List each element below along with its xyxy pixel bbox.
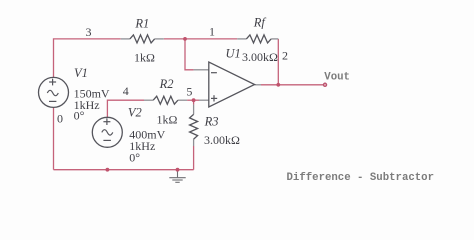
svg-text:R2: R2 (159, 77, 174, 91)
svg-text:3.00kΩ: 3.00kΩ (204, 133, 240, 147)
svg-text:1kΩ: 1kΩ (157, 113, 178, 127)
svg-text:R1: R1 (134, 17, 149, 31)
svg-text:3: 3 (86, 25, 92, 39)
svg-text:Difference - Subtractor: Difference - Subtractor (287, 172, 435, 184)
svg-text:2: 2 (282, 49, 288, 63)
svg-text:R3: R3 (204, 115, 219, 129)
svg-text:Rf: Rf (253, 16, 267, 30)
svg-text:0°: 0° (74, 109, 85, 123)
svg-text:0: 0 (57, 112, 63, 126)
svg-text:1kΩ: 1kΩ (134, 51, 155, 65)
svg-text:Vout: Vout (324, 71, 350, 83)
svg-text:1: 1 (209, 25, 215, 39)
svg-text:5: 5 (186, 85, 192, 99)
svg-text:V2: V2 (128, 106, 142, 120)
svg-text:0°: 0° (129, 150, 140, 164)
svg-text:U1: U1 (226, 47, 241, 61)
svg-text:V1: V1 (74, 66, 88, 80)
svg-text:3.00kΩ: 3.00kΩ (242, 50, 278, 64)
svg-text:4: 4 (123, 84, 129, 98)
